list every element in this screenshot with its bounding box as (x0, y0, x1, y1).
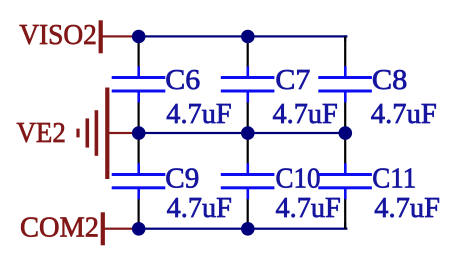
wire col3 C11 to bottom corner (344, 198, 346, 229)
svg-text:4.7uF: 4.7uF (374, 193, 440, 224)
capacitor C6 symbol (112, 66, 166, 102)
svg-text:C10: C10 (276, 164, 321, 195)
wire col2 C7 to middle rail (247, 102, 249, 134)
wire col3 middle rail to C11 (344, 133, 346, 165)
junction node B3 (middle rail / C8 / C11) (339, 126, 353, 140)
capacitor C8 symbol (318, 66, 372, 102)
wire bottom rail COM2 net (138, 228, 348, 230)
wire col2 middle rail to C10 (247, 133, 249, 165)
wire middle rail VE2 net (138, 132, 347, 134)
power port VE2 symbol bar 1 (76, 129, 79, 138)
wire col1 middle rail to C9 (138, 133, 140, 165)
capacitor C7 symbol (221, 66, 275, 102)
capacitor C11 symbol (318, 163, 372, 199)
svg-text:VISO2: VISO2 (19, 20, 97, 51)
junction node A2 (top rail / C7) (241, 30, 255, 44)
wire col3 C8 to middle rail (344, 102, 346, 134)
svg-text:4.7uF: 4.7uF (167, 193, 232, 224)
svg-text:COM2: COM2 (20, 213, 99, 244)
port COM2 tick (101, 212, 105, 245)
wire VE2 to node B1 (108, 132, 139, 134)
capacitor C9 symbol (112, 163, 166, 199)
junction node C2 (bottom rail / C10) (241, 222, 255, 236)
wire col1 top-rail to C6 (138, 37, 140, 68)
power port VE2 symbol bar 2 (86, 118, 90, 147)
wire VISO2 to node A1 (101, 35, 139, 37)
svg-text:C6: C6 (165, 65, 200, 96)
power port VE2 symbol bar 4 (105, 88, 109, 180)
wire col3 top corner to C8 (344, 37, 346, 68)
svg-text:4.7uF: 4.7uF (273, 99, 338, 130)
capacitor C10 symbol (221, 163, 275, 199)
svg-text:VE2: VE2 (17, 118, 66, 149)
power port VE2 symbol bar 3 (95, 110, 99, 156)
port VISO2 tick (99, 20, 103, 53)
wire top rail corner drop to C8 (344, 35, 346, 41)
wire top rail VISO2 net (138, 35, 348, 37)
svg-text:4.7uF: 4.7uF (276, 193, 341, 224)
svg-text:C11: C11 (372, 164, 416, 195)
wire col2 C10 to bottom rail (247, 198, 249, 229)
wire col2 top-rail to C7 (247, 37, 249, 68)
svg-text:C7: C7 (275, 65, 310, 96)
svg-text:C8: C8 (372, 65, 408, 96)
svg-text:4.7uF: 4.7uF (166, 99, 231, 130)
svg-text:C9: C9 (165, 164, 199, 195)
wire col1 C9 to bottom rail (138, 198, 140, 229)
wire col1 C6 to middle rail (138, 102, 140, 134)
wire COM2 to node C1 (102, 228, 139, 230)
junction node B2 (middle rail / C7 / C10) (241, 126, 255, 140)
wire bottom rail corner rise to C11 (344, 223, 346, 229)
svg-text:4.7uF: 4.7uF (371, 99, 437, 130)
junction node B1 (VE2 / C6 / C9) (132, 126, 146, 140)
junction node A1 (VISO2 / C6) (132, 30, 146, 44)
junction node C1 (COM2 / C9) (132, 222, 146, 236)
